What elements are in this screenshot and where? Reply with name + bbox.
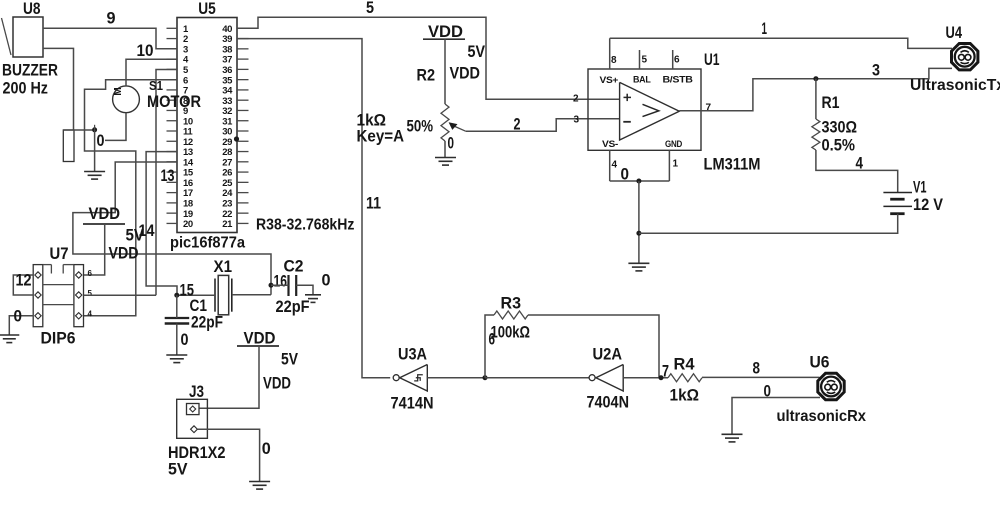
svg-text:13: 13 — [161, 166, 175, 185]
wire U1 output net 3 — [679, 68, 952, 110]
potentiometer R2 — [441, 104, 449, 141]
svg-text:R38-32.768kHz: R38-32.768kHz — [256, 217, 355, 234]
svg-text:22pF: 22pF — [191, 313, 223, 332]
connector J3 HDR1X2 — [177, 399, 208, 438]
svg-text:100kΩ: 100kΩ — [491, 322, 531, 341]
svg-text:GND: GND — [665, 139, 683, 149]
junction dot node 6 — [483, 375, 488, 380]
svg-text:7404N: 7404N — [587, 392, 630, 411]
svg-text:1: 1 — [673, 158, 679, 169]
battery V1 — [883, 192, 912, 194]
svg-text:3: 3 — [872, 60, 880, 79]
svg-text:V1: V1 — [913, 177, 927, 196]
wire ground net horizontal at motor — [63, 129, 94, 131]
wire U7 pin1-pin2 bracket net 12 — [13, 275, 33, 295]
junction dot net 16 at C2 branch — [269, 283, 274, 288]
transducer U4 UltrasonicTx — [952, 44, 978, 70]
svg-text:VDD: VDD — [89, 204, 121, 223]
U1 top pin stubs 8 5 6 — [609, 38, 611, 69]
wire net 15 to crystal left — [177, 294, 215, 296]
ground (C2) — [305, 294, 321, 296]
svg-text:R2: R2 — [417, 66, 436, 85]
wire crystal right to net 16 vertical — [232, 294, 271, 296]
wire node6 to U2A output — [485, 377, 589, 379]
svg-text:J3: J3 — [189, 382, 204, 401]
svg-text:6: 6 — [88, 269, 93, 278]
svg-text:VDD: VDD — [109, 244, 139, 263]
resistor R1 — [812, 119, 820, 150]
wire net 1 VS+ to UltrasonicTx — [610, 38, 952, 48]
wire VDD stem to U7 pin 6 — [84, 224, 105, 275]
junction dot node 7 — [659, 375, 664, 380]
svg-text:5V: 5V — [468, 42, 486, 61]
ground (U1) — [628, 262, 649, 264]
svg-text:0: 0 — [97, 131, 105, 150]
svg-text:0: 0 — [262, 439, 271, 458]
svg-text:BUZZER: BUZZER — [2, 60, 58, 79]
wire U6 lower terminal net 0 — [732, 398, 820, 435]
svg-text:MOTOR: MOTOR — [147, 92, 201, 111]
svg-text:0: 0 — [764, 381, 772, 400]
ground (R2) — [435, 157, 456, 159]
wire battery minus to U1 ground net — [639, 214, 898, 234]
ground (U7) — [0, 334, 19, 336]
svg-text:U2A: U2A — [593, 345, 623, 364]
svg-text:pic16f877a: pic16f877a — [170, 235, 245, 252]
svg-text:2: 2 — [573, 93, 579, 104]
svg-text:UltrasonicTx: UltrasonicTx — [910, 77, 1000, 94]
wire C2 to ground — [296, 285, 313, 295]
ground (C1) — [166, 354, 187, 356]
ground (motor/buzzer) — [84, 171, 105, 173]
svg-text:5: 5 — [88, 289, 93, 298]
svg-text:LM311M: LM311M — [704, 154, 761, 173]
svg-text:20: 20 — [183, 219, 193, 230]
transducer U6 ultrasonicRx — [818, 373, 844, 399]
wire net3 down to R1 — [815, 79, 817, 119]
wire net 8 R4 to ultrasonicRx — [702, 376, 820, 378]
wire R2 to ground — [444, 141, 446, 158]
DIP switch U7 body — [33, 265, 43, 327]
svg-text:R4: R4 — [674, 354, 696, 373]
wire U5 pin6 path to U7 pin4 — [84, 80, 177, 316]
capacitor C1 — [165, 317, 190, 319]
svg-text:4: 4 — [612, 159, 618, 170]
U1 plus sign — [624, 96, 632, 98]
svg-text:7414N: 7414N — [391, 393, 434, 412]
svg-text:M: M — [113, 87, 124, 95]
wire U5 pin14 net 16 to crystal right — [73, 162, 271, 295]
svg-text:6: 6 — [489, 330, 496, 349]
wire U1 ground vertical — [638, 181, 640, 263]
junction dot on U5 right edge pin 29 row — [234, 136, 239, 141]
svg-text:8: 8 — [611, 55, 617, 66]
wire U3A input to node 6 — [427, 377, 485, 379]
feedback resistor R3 branch — [485, 315, 494, 378]
svg-text:1: 1 — [762, 19, 768, 38]
wire U7 pin5 to U5 pin5 vertical — [84, 294, 157, 296]
wire VDD to J3 pin1 — [199, 346, 259, 408]
U7 pin diamonds — [35, 272, 41, 278]
svg-text:6: 6 — [674, 54, 680, 65]
svg-text:22pF: 22pF — [276, 297, 310, 316]
U1 bottom stubs pins 4 1 — [609, 150, 611, 181]
svg-text:5: 5 — [366, 0, 374, 17]
svg-text:VS-: VS- — [602, 139, 618, 149]
junction dot battery return — [636, 231, 641, 236]
svg-text:0: 0 — [448, 134, 455, 153]
IC U5 pic16f877a body — [177, 18, 237, 233]
ground (J3) — [249, 481, 270, 483]
svg-text:4: 4 — [88, 310, 93, 319]
buzzer U8 — [13, 17, 43, 57]
svg-text:DIP6: DIP6 — [41, 329, 76, 348]
svg-text:ultrasonicRx: ultrasonicRx — [777, 408, 867, 425]
R2 wiper arrow — [453, 126, 466, 132]
svg-text:0: 0 — [14, 307, 23, 326]
svg-text:VS+: VS+ — [600, 75, 619, 85]
svg-text:12 V: 12 V — [913, 195, 944, 214]
svg-text:VDD: VDD — [428, 22, 463, 41]
junction dot net 15 — [174, 293, 179, 298]
svg-text:9: 9 — [107, 8, 116, 27]
ground (U6) — [722, 433, 743, 435]
svg-text:U5: U5 — [198, 0, 216, 18]
svg-text:C2: C2 — [284, 257, 304, 276]
svg-text:5V: 5V — [168, 460, 188, 479]
wire net15 down to C1 — [176, 295, 178, 318]
wire net16 to C2 — [271, 284, 289, 286]
U3A schmitt mark — [414, 375, 423, 381]
svg-text:8: 8 — [753, 358, 761, 377]
wire net 10 motor to U5 pin 4 — [126, 59, 177, 86]
junction dot net 3 at R1 — [813, 76, 818, 81]
capacitor C2 — [287, 275, 289, 296]
svg-text:50%: 50% — [407, 117, 434, 136]
wire U2A input to node 7 — [623, 377, 668, 379]
junction dot ground node — [92, 127, 97, 132]
svg-text:10: 10 — [137, 41, 154, 60]
wire VDD to R2 — [444, 39, 446, 104]
svg-text:4: 4 — [856, 153, 864, 172]
svg-text:2: 2 — [514, 115, 521, 134]
comparator U1 LM311M box — [588, 69, 701, 150]
svg-text:330Ω: 330Ω — [822, 117, 858, 136]
wire R3 to node 7 — [528, 315, 659, 378]
svg-text:U7: U7 — [50, 244, 69, 263]
svg-text:1kΩ: 1kΩ — [670, 385, 700, 404]
svg-text:5: 5 — [642, 54, 648, 65]
wire R1 to battery net 4 — [816, 150, 898, 193]
crystal X1 — [214, 279, 216, 312]
svg-text:BAL: BAL — [633, 75, 651, 85]
svg-text:U4: U4 — [946, 23, 963, 42]
svg-text:VDD: VDD — [244, 329, 276, 348]
svg-text:5V: 5V — [281, 350, 299, 369]
svg-text:200 Hz: 200 Hz — [3, 79, 49, 98]
svg-text:11: 11 — [366, 194, 381, 213]
wire U1 ground net — [610, 180, 670, 182]
wire ground stem — [94, 130, 96, 172]
wire buzzer bottom terminal down — [43, 48, 74, 130]
resistor R4 — [668, 374, 702, 382]
U1 triangle — [620, 82, 680, 140]
wire net 11 U5 pin39 to U3A output — [237, 39, 390, 378]
inverter U2A 7404N — [596, 365, 623, 392]
wire U5 pin13 net 15 to crystal — [146, 152, 177, 296]
svg-text:5V: 5V — [126, 226, 145, 245]
svg-text:U6: U6 — [810, 352, 830, 371]
svg-text:B/STB: B/STB — [663, 75, 694, 85]
wire J3 pin2 to ground — [198, 429, 260, 481]
wire U5 pin5 long vertical to U7 pin5 net — [156, 70, 177, 296]
resistor R3 — [494, 311, 528, 319]
svg-text:21: 21 — [222, 219, 233, 230]
svg-text:VDD: VDD — [450, 64, 481, 83]
svg-text:S1: S1 — [149, 78, 163, 93]
unlabeled box below buzzer wire — [63, 130, 74, 162]
svg-text:R3: R3 — [501, 293, 522, 312]
svg-text:0: 0 — [181, 330, 189, 349]
wire U7 pin3 to ground — [9, 316, 33, 335]
wire net 2 wiper to comparator - input — [466, 119, 620, 132]
wire motor bottom to ground node — [105, 113, 126, 141]
svg-text:3: 3 — [574, 115, 580, 126]
svg-text:X1: X1 — [214, 257, 233, 276]
wire C1 to ground — [176, 324, 178, 356]
svg-text:VDD: VDD — [263, 373, 291, 392]
svg-text:Key=A: Key=A — [357, 127, 405, 146]
U1 chevron — [643, 104, 659, 116]
svg-text:7: 7 — [706, 102, 712, 113]
junction dot U1 ground — [636, 179, 641, 184]
U1 minus sign — [623, 121, 631, 123]
wire net 9 buzzer to U5 pin 3 — [43, 28, 177, 48]
svg-text:12: 12 — [16, 271, 32, 290]
svg-text:R1: R1 — [822, 93, 840, 112]
U5 pins stubs and numbers — [167, 27, 178, 29]
svg-text:0.5%: 0.5% — [822, 135, 856, 154]
svg-text:U3A: U3A — [398, 345, 427, 364]
inverter U3A 7414N — [400, 365, 428, 392]
motor S1 — [113, 86, 140, 113]
svg-text:0: 0 — [322, 271, 331, 290]
wire net 5 U5 pin40 to comparator + input — [237, 17, 620, 99]
svg-text:U1: U1 — [704, 50, 720, 69]
svg-text:U8: U8 — [23, 0, 41, 18]
svg-text:0: 0 — [621, 165, 630, 184]
